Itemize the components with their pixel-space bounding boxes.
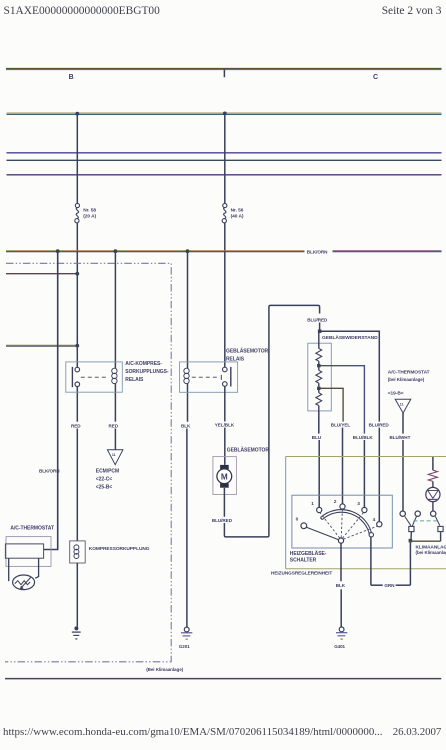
- svg-text:3: 3: [357, 501, 360, 507]
- switch pivot: [338, 538, 343, 543]
- svg-text:(20 A): (20 A): [83, 214, 96, 220]
- node junction (77,345.6): [75, 344, 79, 348]
- thermistor arrow: [20, 577, 31, 589]
- relay blower dashed link: [192, 376, 220, 378]
- svg-text:11: 11: [112, 453, 116, 457]
- relay blower coil: [184, 368, 189, 383]
- svg-text:GRN: GRN: [384, 583, 395, 588]
- thermistor zigzag: [15, 581, 30, 585]
- svg-text:BLU/RED: BLU/RED: [212, 518, 233, 523]
- svg-text:A/C-THERMOSTAT: A/C-THERMOSTAT: [388, 370, 430, 376]
- wire into resistor: [318, 331, 320, 348]
- motor M1: [217, 465, 232, 488]
- compressor clutch coil: [74, 545, 79, 559]
- gang dashed line: [413, 520, 439, 522]
- A/C-KOMPRESSORKUPPLUNGS-RELAIS label: [125, 361, 169, 383]
- plug right: [438, 526, 443, 531]
- svg-text:BLU/BLK: BLU/BLK: [353, 435, 374, 440]
- wire relay BLK leg to G201: [187, 384, 189, 422]
- bus line 5: [7, 174, 442, 176]
- svg-text:0: 0: [296, 517, 299, 523]
- relay blower blade: [230, 367, 232, 387]
- svg-text:SORKUPPLUNGS-: SORKUPPLUNGS-: [125, 369, 169, 375]
- wire node to relay contact: [76, 346, 78, 368]
- svg-text:BLU/RED: BLU/RED: [369, 422, 390, 427]
- wire thermostat right leg: [35, 558, 38, 578]
- svg-text:SCHALTER: SCHALTER: [290, 557, 317, 563]
- svg-text:11: 11: [400, 402, 404, 406]
- svg-text:ECM/PCM: ECM/PCM: [96, 469, 119, 475]
- svg-text:GEBLÄSEMOTOR: GEBLÄSEMOTOR: [227, 446, 270, 453]
- svg-text:B: B: [69, 74, 74, 81]
- svg-text:Seite 2 von 3: Seite 2 von 3: [382, 5, 442, 17]
- wire relay coil feed x115: [114, 251, 116, 368]
- wire fuse56 to relay: [224, 223, 226, 367]
- switch blade right: [435, 516, 440, 525]
- wire lamp to contact: [432, 502, 434, 511]
- switch contact 4: [377, 522, 382, 527]
- wire GRN up to A/C switch junction: [409, 542, 411, 585]
- wire GRN from arc end: [370, 537, 372, 585]
- svg-text:HEIZUNGSREGLEREINHEIT: HEIZUNGSREGLEREINHEIT: [271, 571, 332, 576]
- node junction on bus2 at x77: [75, 112, 79, 116]
- svg-text:https://www.ecom.honda-eu.com/: https://www.ecom.honda-eu.com/gma10/EMA/…: [3, 726, 382, 738]
- svg-text:BLK/ORN: BLK/ORN: [307, 249, 328, 254]
- wire stub y345 to left margin (two-tone): [6, 345, 77, 346]
- bus line 2 (two-tone): [7, 113, 442, 114]
- svg-text:A/C-KOMPRES-: A/C-KOMPRES-: [125, 361, 162, 367]
- svg-text:BLU/YEL: BLU/YEL: [331, 422, 351, 427]
- svg-text:Nr. 58: Nr. 58: [83, 208, 96, 214]
- ground (compressor clutch): [72, 626, 81, 639]
- node tap2: [317, 387, 320, 390]
- svg-text:<22-C<: <22-C<: [96, 477, 113, 483]
- ECM/PCM label: [96, 469, 119, 491]
- svg-text:GEBLÄSEMOTOR-: GEBLÄSEMOTOR-: [226, 348, 270, 355]
- bottom separator line: [5, 678, 441, 680]
- svg-text:BLK: BLK: [181, 424, 191, 429]
- fuse Nr.58 value label: [83, 208, 96, 220]
- svg-text:(40 A): (40 A): [231, 214, 244, 220]
- svg-text:<19-B<: <19-B<: [388, 391, 404, 397]
- svg-text:(bei Klimaanlage): (bei Klimaanlage): [388, 377, 425, 382]
- relay A/C dashed link: [81, 376, 109, 378]
- node junction (77,274): [75, 272, 79, 276]
- connector triangle from A/C thermostat: [395, 399, 411, 413]
- fuse Nr.58: [75, 203, 80, 222]
- wire YEL/BLK relay to motor: [224, 386, 226, 421]
- svg-text:YEL/BLK: YEL/BLK: [215, 422, 235, 427]
- svg-text:RED: RED: [71, 424, 81, 429]
- wiper solid line to 0: [306, 527, 338, 540]
- relay A/C compressor clutch box: [66, 362, 123, 392]
- GRN horizontal left segment: [371, 584, 383, 586]
- switch contact 0: [301, 523, 307, 529]
- A/C switch tie bar: [410, 540, 440, 542]
- node junction BLK/ORN x187: [186, 249, 190, 253]
- A/C switch contact right: [431, 511, 436, 516]
- dash-dot boundary (Bei Klimaanlage): [5, 263, 171, 662]
- dashed spokes: [320, 509, 378, 539]
- heater control unit outer box: [286, 457, 446, 569]
- svg-text:26.03.2007: 26.03.2007: [393, 726, 442, 738]
- svg-text:RELAIS: RELAIS: [226, 356, 245, 362]
- wire lamp branch from box top: [432, 457, 434, 470]
- svg-text:2: 2: [334, 499, 337, 505]
- resistor R2: [316, 367, 322, 386]
- ground G401: [336, 627, 347, 639]
- bus line 4: [7, 159, 442, 161]
- A/C indicator lamp (LED): [426, 487, 440, 501]
- heater fan switch inner box: [292, 495, 392, 548]
- switch wiper arc: [320, 510, 372, 537]
- fuse Nr.56: [222, 203, 227, 222]
- wire left plug to junction: [410, 532, 412, 539]
- svg-text:BLU: BLU: [312, 435, 322, 440]
- svg-text:BLU/WHT: BLU/WHT: [390, 435, 411, 440]
- blower motor box: [213, 457, 237, 495]
- wire BLU/RED stub to junction: [319, 323, 321, 332]
- A/C-THERMOSTAT label right: [388, 370, 430, 383]
- GEBLAESEMOTOR-RELAIS label: [226, 348, 270, 363]
- tick stub on top bus: [223, 69, 225, 77]
- relay blower contacts: [223, 367, 228, 386]
- BLK/ORN bus right segment: [333, 251, 442, 252]
- A/C switch contact left: [400, 511, 405, 516]
- relay A/C blade: [71, 367, 73, 387]
- wire RED left (relay contact to compressor clutch): [76, 387, 78, 422]
- wire fuse56 feed: [224, 113, 226, 203]
- wire fuse58 to node: [76, 223, 78, 346]
- wire BLU resistor out: [318, 411, 320, 434]
- relay blower motor box: [180, 362, 238, 392]
- node junction BLK/ORN x58: [56, 249, 60, 253]
- wire relay coil feed x187: [187, 251, 189, 368]
- wire fuse58 feed: [76, 114, 78, 204]
- svg-text:HEIZGEBLÄSE-: HEIZGEBLÄSE-: [290, 550, 327, 557]
- wire BLU/RED motor out: [223, 488, 225, 517]
- svg-text:M: M: [221, 472, 228, 481]
- node tap1: [317, 364, 320, 367]
- svg-text:(bei Klimaanlage): (bei Klimaanlage): [416, 550, 446, 555]
- plug left: [409, 526, 414, 531]
- GRN horizontal right segment: [396, 584, 411, 586]
- A/C switch contact middle: [415, 511, 420, 516]
- wire BLU/RED loop up to resistor: [224, 305, 319, 537]
- switch blade left pair: [405, 516, 417, 526]
- A/C thermostat inner box: [5, 544, 43, 558]
- wire tap2 to BLU/YEL: [321, 388, 344, 421]
- node junction on bus2 at x225: [223, 112, 227, 116]
- switch contact 2: [340, 504, 345, 509]
- node junction BLU/RED: [318, 330, 322, 334]
- bus line top (two-tone): [6, 68, 442, 69]
- HEIZGEBLAESE-SCHALTER label: [290, 550, 327, 564]
- svg-text:(Bei Klimaanlage): (Bei Klimaanlage): [146, 667, 183, 672]
- svg-text:C: C: [373, 74, 378, 81]
- relay A/C coil: [112, 368, 117, 383]
- blower resistor box: [308, 343, 332, 411]
- svg-text:G201: G201: [179, 644, 190, 649]
- svg-text:RELAIS: RELAIS: [125, 377, 144, 383]
- arc end contact: [369, 533, 373, 537]
- node junction BLK/ORN x115: [114, 249, 118, 253]
- switch contact 3: [362, 507, 367, 512]
- node junction A/C switch: [409, 539, 413, 543]
- svg-text:1: 1: [311, 501, 314, 507]
- relay blower link tick: [220, 375, 222, 380]
- svg-text:BLU/RED: BLU/RED: [307, 318, 328, 323]
- svg-text:A/C-THERMOSTAT: A/C-THERMOSTAT: [10, 526, 54, 532]
- lamp series resistor: [428, 470, 437, 481]
- switch contact 1: [317, 507, 322, 512]
- fuse Nr.56 value label: [231, 208, 244, 220]
- svg-text:G401: G401: [334, 644, 345, 649]
- wire right plug to tie bar: [440, 532, 442, 541]
- resistor R3: [316, 390, 322, 411]
- wire BLU/WHT: [402, 413, 404, 434]
- wire stub y273 to left margin: [6, 273, 77, 275]
- svg-text:S1AXE00000000000000EBGT00: S1AXE00000000000000EBGT00: [4, 5, 161, 17]
- A/C thermostat outer box: [6, 537, 51, 567]
- svg-text:KOMPRESSORKUPPLUNG: KOMPRESSORKUPPLUNG: [89, 546, 150, 552]
- svg-text:BLK: BLK: [336, 583, 346, 588]
- wire BLK/ORN vertical x58 to thermostat: [44, 251, 58, 549]
- resistor R1: [316, 348, 322, 361]
- svg-text:<25-B<: <25-B<: [96, 485, 113, 491]
- wire thermostat left leg: [8, 558, 10, 581]
- svg-text:BLK/ORN: BLK/ORN: [39, 469, 60, 474]
- svg-text:GEBLÄSEWIDERSTAND: GEBLÄSEWIDERSTAND: [322, 334, 378, 341]
- relay A/C contacts: [75, 367, 80, 386]
- wire BLK from pivot to G401: [340, 543, 342, 581]
- wire tap1 to BLU/BLK: [321, 366, 365, 434]
- KLIMAANLAGENSCHALTER label: [416, 545, 446, 555]
- wire RED right (relay coil to ECM): [114, 384, 116, 422]
- wire junction to switch contact 4: [320, 331, 380, 421]
- svg-text:RED: RED: [109, 424, 119, 429]
- compressor clutch box: [70, 541, 86, 563]
- ground G201: [181, 627, 192, 639]
- BLK/ORN bus left segment: [6, 251, 305, 252]
- svg-text:Nr. 56: Nr. 56: [231, 208, 244, 214]
- wire compressor to ground: [76, 563, 78, 627]
- svg-text:4: 4: [373, 517, 376, 523]
- bus line 3: [7, 152, 442, 154]
- thermostat sensor bulb: [13, 575, 35, 590]
- connector triangle to ECM/PCM: [107, 450, 123, 465]
